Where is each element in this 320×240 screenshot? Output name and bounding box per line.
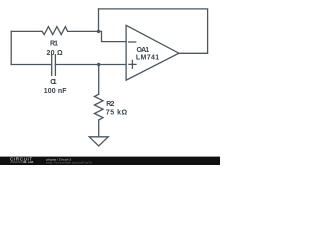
svg-text:http://circuitlab.com/c87ra7b: http://circuitlab.com/c87ra7b [46, 161, 92, 165]
svg-text:OA1: OA1 [137, 47, 150, 54]
svg-text:75 kΩ: 75 kΩ [106, 109, 128, 116]
svg-text:20 Ω: 20 Ω [47, 50, 63, 57]
svg-text:R2: R2 [106, 101, 114, 108]
svg-text:100 nF: 100 nF [44, 88, 68, 95]
svg-text:LAB: LAB [28, 160, 34, 164]
svg-text:C1: C1 [50, 79, 57, 86]
svg-text:R1: R1 [50, 41, 58, 48]
svg-text:LM741: LM741 [136, 54, 159, 61]
